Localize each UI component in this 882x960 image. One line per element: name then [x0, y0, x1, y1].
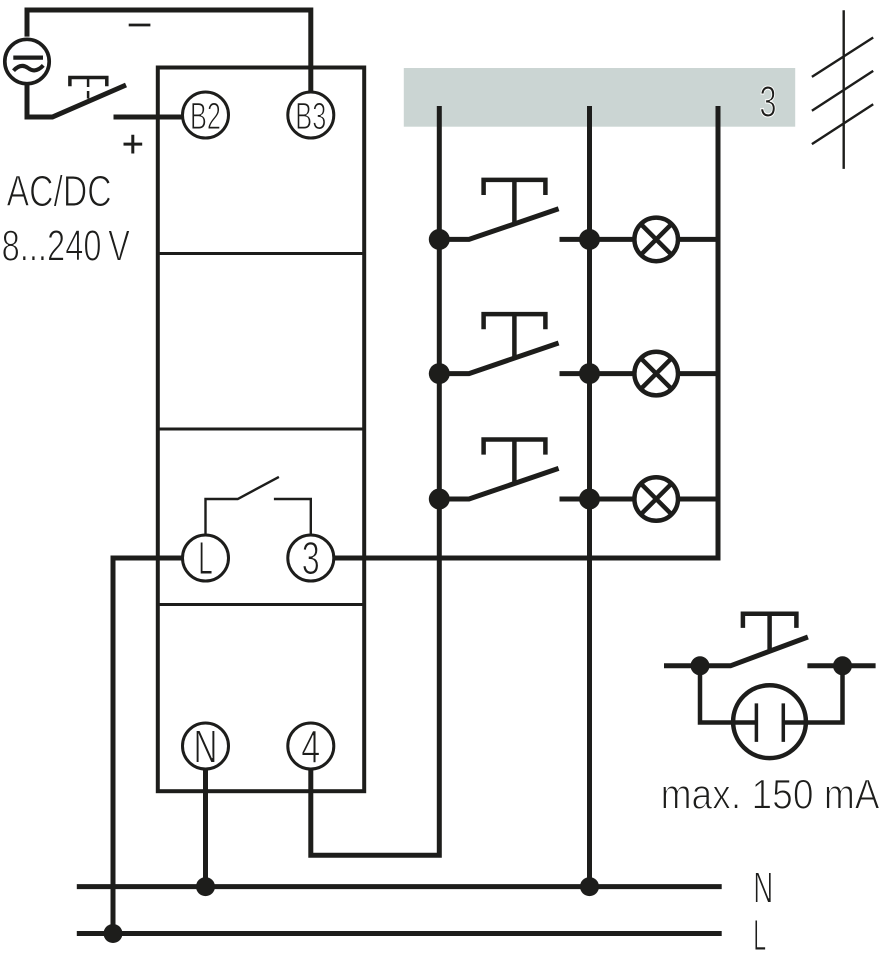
svg-text:N: N — [194, 720, 218, 772]
svg-text:4: 4 — [301, 720, 320, 772]
svg-text:3: 3 — [302, 532, 320, 584]
svg-text:B2: B2 — [190, 96, 221, 138]
svg-text:3: 3 — [760, 78, 777, 127]
svg-text:L: L — [753, 911, 766, 960]
svg-text:B3: B3 — [295, 96, 326, 138]
svg-text:L: L — [198, 532, 213, 584]
svg-text:8...240 V: 8...240 V — [2, 221, 131, 270]
svg-text:AC/DC: AC/DC — [7, 167, 112, 216]
svg-text:N: N — [753, 864, 773, 913]
svg-text:max. 150 mA: max. 150 mA — [661, 770, 880, 817]
